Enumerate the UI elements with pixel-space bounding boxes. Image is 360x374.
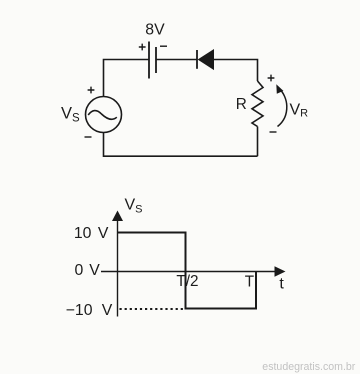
wire top-left segment	[104, 60, 150, 97]
svg-text:estudegratis.com.br: estudegratis.com.br	[262, 361, 356, 373]
svg-text:T: T	[245, 273, 254, 290]
source minus sign	[85, 136, 92, 138]
wire bottom	[104, 133, 258, 157]
graph vertical axis	[117, 221, 119, 317]
VR arc arrow	[278, 89, 287, 127]
svg-text:VR: VR	[290, 102, 309, 120]
svg-text:t: t	[279, 276, 284, 293]
diode D1 triangle	[199, 50, 214, 69]
graph vertical axis arrowhead	[112, 211, 123, 222]
resistor minus sign	[270, 131, 277, 133]
svg-text:T/2: T/2	[176, 273, 198, 290]
svg-text:V: V	[98, 225, 109, 242]
resistor R zigzag	[252, 81, 263, 127]
svg-text:V: V	[89, 262, 100, 279]
svg-text:−10: −10	[66, 302, 93, 319]
battery B1 long plate	[148, 42, 150, 79]
battery plus sign	[139, 44, 146, 51]
svg-text:VS: VS	[61, 104, 80, 124]
dotted line -10V level	[120, 308, 185, 310]
graph horizontal axis arrowhead	[275, 266, 286, 276]
VR arrowhead	[276, 84, 283, 94]
source VS circle	[86, 97, 122, 133]
graph horizontal axis	[101, 271, 275, 273]
svg-text:8V: 8V	[145, 22, 165, 39]
svg-text:R: R	[236, 96, 247, 113]
resistor plus sign	[268, 75, 275, 82]
battery B1 short plate	[155, 47, 157, 73]
wire right below resistor	[257, 127, 259, 157]
diode D1 cathode bar	[196, 50, 198, 69]
source plus sign	[88, 87, 95, 94]
square wave VS	[118, 233, 257, 309]
svg-text:10: 10	[74, 225, 92, 242]
svg-text:V: V	[102, 302, 113, 319]
svg-text:0: 0	[75, 262, 84, 279]
wire diode to top-right corner	[214, 60, 258, 82]
battery minus sign	[160, 45, 167, 47]
source VS sine	[88, 111, 117, 120]
svg-text:VS: VS	[125, 197, 143, 216]
wire battery to diode	[156, 59, 197, 61]
